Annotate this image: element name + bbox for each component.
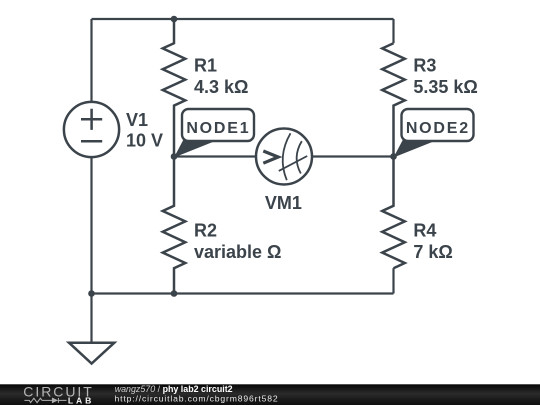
wire left rail upper bbox=[90, 19, 92, 102]
ground wire bbox=[90, 294, 92, 343]
resistor R4 bbox=[382, 157, 405, 269]
node NODE1 callout tail bbox=[174, 140, 214, 158]
svg-text:10 V: 10 V bbox=[126, 131, 163, 151]
junction node NODE1 bbox=[171, 153, 178, 160]
svg-text:R3: R3 bbox=[413, 56, 436, 76]
svg-text:variable Ω: variable Ω bbox=[194, 242, 281, 262]
wire middle right bbox=[312, 155, 394, 157]
ground symbol bbox=[69, 343, 114, 364]
svg-text:7 kΩ: 7 kΩ bbox=[413, 242, 452, 262]
svg-text:http://circuitlab.com/cbgrm896: http://circuitlab.com/cbgrm896rt582 bbox=[115, 394, 279, 404]
wire right rail upper bbox=[392, 19, 394, 43]
wire middle left bbox=[174, 155, 256, 157]
footer logo resistor-diode symbol bbox=[24, 398, 66, 403]
footer bar bbox=[0, 384, 540, 405]
svg-text:LAB: LAB bbox=[68, 395, 94, 405]
wire bottom rail bbox=[92, 292, 394, 294]
junction node NODE2 bbox=[390, 153, 397, 160]
svg-text:V1: V1 bbox=[126, 110, 148, 130]
svg-text:R2: R2 bbox=[194, 221, 217, 241]
resistor R2 bbox=[163, 157, 186, 294]
node NODE2 callout box bbox=[402, 109, 474, 141]
svg-text:VM1: VM1 bbox=[265, 193, 302, 213]
footer logo diode triangle bbox=[52, 398, 58, 404]
resistor R3 bbox=[382, 43, 405, 156]
junction node top bbox=[171, 16, 178, 23]
svg-text:NODE2: NODE2 bbox=[406, 120, 470, 137]
svg-text:R4: R4 bbox=[413, 221, 436, 241]
svg-text:5.35 kΩ: 5.35 kΩ bbox=[413, 77, 477, 97]
node NODE2 callout tail bbox=[394, 140, 434, 158]
svg-text:4.3 kΩ: 4.3 kΩ bbox=[194, 77, 248, 97]
wire right rail lower bbox=[392, 268, 394, 293]
junction node bottom left bbox=[88, 290, 95, 297]
resistor R1 bbox=[163, 19, 186, 157]
junction node bottom R2 bbox=[171, 290, 178, 297]
svg-text:wangz570 / phy lab2 circuit2: wangz570 / phy lab2 circuit2 bbox=[115, 384, 233, 394]
wire left rail lower bbox=[90, 157, 92, 293]
voltage source V1 bbox=[64, 102, 119, 157]
wire top rail bbox=[92, 18, 394, 20]
svg-text:R1: R1 bbox=[194, 56, 217, 76]
node NODE1 callout box bbox=[182, 109, 254, 141]
svg-text:NODE1: NODE1 bbox=[186, 120, 250, 137]
voltmeter VM1 bbox=[256, 129, 312, 185]
